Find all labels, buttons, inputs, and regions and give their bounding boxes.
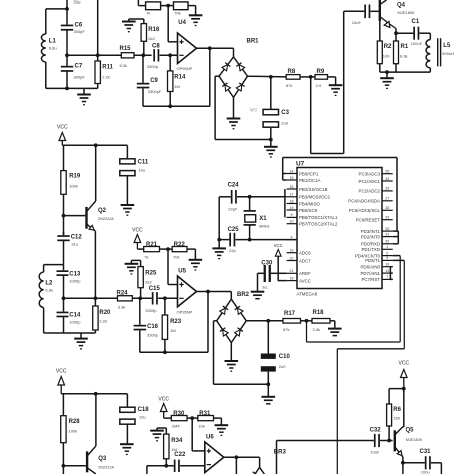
svg-text:22: 22 bbox=[290, 256, 294, 260]
ground R31 bbox=[215, 425, 229, 435]
svg-text:PB0/ICP1: PB0/ICP1 bbox=[299, 171, 319, 176]
wire riser to C32 bbox=[277, 440, 374, 442]
wire node1 to R15 bbox=[67, 54, 121, 56]
svg-text:31u: 31u bbox=[74, 0, 82, 5]
svg-text:PD2/INT0: PD2/INT0 bbox=[361, 234, 381, 239]
svg-text:3.3k: 3.3k bbox=[313, 327, 321, 332]
wire U6 output node bbox=[224, 455, 260, 459]
svg-text:10uF: 10uF bbox=[370, 449, 380, 454]
ground C30 bbox=[251, 292, 265, 299]
wire emitter Q1 (cut off above) bbox=[96, 0, 100, 61]
svg-text:24: 24 bbox=[385, 177, 389, 181]
ground tank1 bbox=[77, 88, 91, 104]
svg-text:31: 31 bbox=[385, 232, 389, 236]
svg-text:100: 100 bbox=[383, 54, 390, 59]
resistor R2 bbox=[377, 21, 392, 72]
capacitor C24 bbox=[219, 182, 286, 211]
ground R34 bbox=[150, 431, 164, 441]
svg-text:C9: C9 bbox=[150, 78, 158, 84]
svg-text:19: 19 bbox=[290, 249, 294, 253]
svg-text:PB2/SS/OC1B: PB2/SS/OC1B bbox=[299, 187, 328, 192]
svg-text:PD6/AIN0: PD6/AIN0 bbox=[360, 265, 380, 270]
svg-text:R16: R16 bbox=[148, 27, 160, 33]
wire crystal left rail bbox=[217, 197, 221, 242]
svg-text:C24: C24 bbox=[228, 182, 240, 188]
wire R25 top jog bbox=[131, 260, 140, 263]
wire U4 feedback rail bbox=[143, 48, 210, 108]
svg-text:PD3/INT1: PD3/INT1 bbox=[361, 229, 381, 234]
power VCC Q5 bbox=[399, 361, 410, 389]
wire U4 output node bbox=[197, 46, 234, 50]
svg-text:VCC: VCC bbox=[158, 397, 169, 403]
IC U7 body bbox=[296, 161, 382, 297]
wire junction to U4 plus input bbox=[168, 6, 177, 42]
svg-text:PD1/TXD: PD1/TXD bbox=[361, 247, 380, 252]
ground tank2 bbox=[74, 333, 88, 349]
ground C10 bbox=[262, 384, 276, 404]
wire to BR3 top bbox=[259, 457, 261, 467]
wire net H2 to U7 bbox=[283, 158, 397, 232]
svg-text:PB3/MOSI/OC2: PB3/MOSI/OC2 bbox=[299, 195, 331, 200]
svg-text:1M: 1M bbox=[174, 84, 180, 89]
bridge rectifier BR3 bbox=[248, 449, 286, 474]
svg-text:ADC7: ADC7 bbox=[299, 258, 311, 263]
resistor R19 bbox=[61, 145, 81, 194]
svg-text:OP95NP: OP95NP bbox=[177, 66, 193, 71]
ground crystal rail bbox=[212, 240, 226, 259]
svg-text:PC7/RST: PC7/RST bbox=[361, 277, 380, 282]
resistor R28 bbox=[61, 394, 81, 443]
svg-text:R31: R31 bbox=[199, 411, 211, 417]
svg-text:C6: C6 bbox=[75, 23, 83, 29]
svg-text:R24: R24 bbox=[117, 291, 129, 297]
svg-text:16: 16 bbox=[290, 185, 294, 189]
svg-text:U4: U4 bbox=[178, 20, 186, 26]
resistor R34 bbox=[164, 428, 183, 466]
resistor R22 bbox=[172, 242, 187, 259]
capacitor C18 bbox=[120, 394, 149, 424]
capacitor C16 bbox=[134, 298, 159, 352]
wire U7 pins 1-2 bracket bbox=[283, 158, 287, 181]
resistor R18 bbox=[312, 310, 330, 332]
capacitor C11 bbox=[120, 145, 149, 175]
svg-text:1M: 1M bbox=[170, 328, 176, 333]
capacitor C1 bbox=[411, 19, 423, 46]
svg-text:2N2222A: 2N2222A bbox=[98, 217, 114, 221]
capacitor C25 bbox=[219, 227, 297, 253]
wire Q2 emitter down bbox=[94, 231, 98, 306]
wire BR1 bottom to ground bbox=[233, 97, 235, 118]
ground R13 bbox=[189, 15, 203, 25]
svg-text:R2: R2 bbox=[384, 44, 392, 50]
wire R24 to node A2 bbox=[132, 296, 152, 300]
svg-text:1: 1 bbox=[386, 245, 388, 249]
svg-text:2.2k: 2.2k bbox=[99, 319, 107, 324]
wire U7 right bracket lower rows bbox=[390, 267, 392, 280]
op-amp U4 bbox=[177, 20, 197, 71]
inductor L5 bbox=[426, 38, 454, 68]
wire R22 to ground bbox=[187, 249, 195, 260]
wire net A to Q4 base bbox=[343, 11, 345, 153]
svg-text:PD5/T1: PD5/T1 bbox=[365, 258, 380, 263]
svg-text:5.0k: 5.0k bbox=[120, 63, 128, 68]
wire Q4 emitter node bbox=[394, 29, 398, 36]
wire R12-R13 junction bbox=[161, 4, 174, 8]
svg-text:R20: R20 bbox=[99, 310, 111, 316]
svg-text:4: 4 bbox=[291, 235, 293, 239]
svg-text:BR1: BR1 bbox=[247, 39, 260, 45]
wire BR2 left vertex down bbox=[214, 321, 217, 384]
wire BR3 right vertex riser bbox=[276, 441, 278, 474]
bridge rectifier BR2 bbox=[217, 292, 250, 342]
wire C10 bottom rail bbox=[214, 382, 271, 386]
wire Q4 emitter to C1 bbox=[396, 32, 413, 34]
IC U7 left pins bbox=[287, 169, 338, 283]
svg-text:500uH: 500uH bbox=[442, 51, 454, 56]
svg-text:31u: 31u bbox=[71, 241, 78, 246]
wire node to U6 minus bbox=[180, 465, 205, 467]
svg-text:R34: R34 bbox=[171, 438, 183, 444]
resistor R21 bbox=[144, 242, 160, 259]
wire Q4 block bottom rail bbox=[380, 68, 431, 74]
svg-text:R23: R23 bbox=[170, 319, 182, 325]
svg-text:8MHz: 8MHz bbox=[259, 224, 269, 229]
svg-text:14: 14 bbox=[290, 169, 294, 173]
capacitor C30 bbox=[258, 260, 279, 291]
svg-text:L1: L1 bbox=[49, 39, 57, 45]
wire L2 top bbox=[44, 264, 64, 266]
svg-text:10: 10 bbox=[290, 220, 294, 224]
svg-text:22p: 22p bbox=[229, 248, 236, 253]
wire U5 feedback rail bbox=[140, 292, 208, 355]
svg-text:15: 15 bbox=[290, 176, 294, 180]
svg-text:2k2: 2k2 bbox=[145, 279, 152, 284]
wire U7 pin row 260 to net C bbox=[393, 259, 405, 261]
svg-text:10: 10 bbox=[385, 263, 389, 267]
resistor R31 bbox=[198, 411, 214, 429]
svg-text:3300p: 3300p bbox=[147, 64, 159, 69]
wire U6 feedback down bbox=[235, 457, 237, 474]
svg-text:C10: C10 bbox=[279, 354, 291, 360]
wire junction to U6 plus input bbox=[192, 418, 205, 451]
wire BR2 bottom to ground bbox=[230, 343, 232, 361]
ground C11 bbox=[121, 176, 135, 216]
wire Q5 emitter node bbox=[401, 457, 405, 474]
svg-text:C8: C8 bbox=[152, 44, 160, 50]
svg-text:C3: C3 bbox=[281, 110, 289, 116]
ground C3 bbox=[264, 140, 278, 158]
svg-text:R30: R30 bbox=[173, 411, 185, 417]
resistor R16 bbox=[141, 19, 160, 55]
svg-text:R21: R21 bbox=[146, 242, 158, 248]
svg-text:2.2k: 2.2k bbox=[102, 75, 110, 80]
svg-text:6.3k: 6.3k bbox=[400, 54, 408, 59]
svg-text:R11: R11 bbox=[102, 65, 113, 71]
svg-text:VCC: VCC bbox=[399, 361, 410, 367]
capacitor C6 bbox=[61, 23, 86, 35]
wire VCC to R21 bbox=[137, 248, 143, 250]
wire to BR1 top bbox=[233, 48, 235, 57]
svg-text:MJE180K: MJE180K bbox=[398, 10, 416, 15]
wire R9 to ground bbox=[328, 77, 336, 85]
wire Q2 collector bbox=[95, 145, 97, 201]
wire junction to U5 plus input bbox=[168, 249, 178, 284]
svg-text:3300p: 3300p bbox=[147, 332, 159, 337]
resistor R23 bbox=[162, 298, 182, 352]
capacitor C13 bbox=[57, 265, 82, 312]
wire R31 to ground bbox=[214, 418, 222, 425]
svg-text:100uF: 100uF bbox=[411, 41, 423, 46]
svg-text:10uF: 10uF bbox=[352, 20, 362, 25]
svg-text:PB5/SCK: PB5/SCK bbox=[299, 208, 318, 213]
wire R17-R18 junction bbox=[301, 319, 313, 323]
crystal X1 bbox=[244, 197, 270, 240]
wire R13 to ground bbox=[188, 6, 196, 16]
svg-text:VCC: VCC bbox=[57, 125, 68, 131]
wire U5 output node bbox=[197, 290, 232, 294]
svg-text:7k: 7k bbox=[144, 254, 148, 259]
svg-text:9: 9 bbox=[386, 256, 388, 260]
svg-text:1000p: 1000p bbox=[69, 320, 81, 325]
wire R34 top jog bbox=[157, 428, 166, 431]
wire R19 to base node bbox=[62, 194, 66, 235]
svg-text:19: 19 bbox=[290, 206, 294, 210]
transistor Q3 bbox=[63, 446, 114, 474]
wire C31 right down bbox=[431, 463, 442, 474]
svg-text:70k: 70k bbox=[173, 254, 179, 259]
svg-text:C25: C25 bbox=[228, 227, 240, 233]
resistor R8 bbox=[286, 69, 300, 88]
capacitor C3 bbox=[263, 77, 290, 140]
ground R16 bbox=[122, 22, 136, 32]
svg-text:10u: 10u bbox=[138, 167, 145, 172]
svg-text:18: 18 bbox=[290, 276, 294, 280]
svg-text:28: 28 bbox=[385, 206, 389, 210]
capacitor C22 bbox=[174, 452, 186, 472]
svg-text:3300p: 3300p bbox=[145, 308, 157, 313]
svg-text:U6: U6 bbox=[206, 435, 214, 441]
svg-text:VCC: VCC bbox=[56, 369, 67, 375]
svg-text:29: 29 bbox=[385, 216, 389, 220]
IC U7 right pins bbox=[348, 170, 392, 283]
wire VCC to R6 and Q5 collector bbox=[389, 387, 406, 391]
resistor R11 bbox=[95, 61, 114, 88]
resistor R12 (top, partly cut) bbox=[146, 2, 161, 15]
svg-text:26: 26 bbox=[385, 170, 389, 174]
svg-text:C18: C18 bbox=[138, 407, 150, 413]
resistor R13 (top, partly cut) bbox=[174, 2, 189, 15]
svg-text:27: 27 bbox=[385, 197, 389, 201]
wire R8-R9 junction bbox=[300, 75, 315, 79]
svg-text:1000p: 1000p bbox=[69, 279, 81, 284]
svg-text:3300pF: 3300pF bbox=[148, 89, 162, 94]
svg-text:VCC: VCC bbox=[132, 228, 143, 234]
svg-text:3uL: 3uL bbox=[262, 285, 268, 289]
svg-text:100k: 100k bbox=[69, 429, 78, 434]
transistor Q5 bbox=[394, 427, 423, 457]
svg-text:C32: C32 bbox=[370, 427, 382, 433]
svg-text:PB4/MISO: PB4/MISO bbox=[299, 201, 320, 206]
wire C7 to bottom rail bbox=[65, 71, 69, 91]
svg-text:25: 25 bbox=[385, 187, 389, 191]
svg-text:3.3k: 3.3k bbox=[118, 305, 126, 310]
bridge rectifier BR1 bbox=[219, 39, 259, 98]
svg-text:2N2222A: 2N2222A bbox=[98, 465, 114, 469]
ground R18 bbox=[328, 329, 342, 336]
ground BR2 bbox=[225, 361, 239, 371]
svg-text:C1: C1 bbox=[412, 19, 420, 25]
svg-text:PB6/TOSC1/XTAL1: PB6/TOSC1/XTAL1 bbox=[299, 215, 338, 220]
wire to BR2 top bbox=[230, 292, 232, 300]
svg-text:MJE180K: MJE180K bbox=[406, 438, 423, 442]
svg-text:180: 180 bbox=[393, 415, 400, 420]
wire R18 to ground bbox=[330, 321, 335, 329]
svg-text:AVCC: AVCC bbox=[299, 278, 311, 283]
svg-text:7k: 7k bbox=[146, 10, 150, 15]
svg-text:17: 17 bbox=[290, 193, 294, 197]
svg-text:C7: C7 bbox=[75, 64, 83, 70]
wire U7 left bracket pins 3-7 bbox=[284, 189, 286, 217]
svg-text:Q5: Q5 bbox=[406, 428, 415, 434]
svg-text:7: 7 bbox=[386, 275, 388, 279]
svg-text:3(7)ʺ: 3(7)ʺ bbox=[250, 107, 259, 112]
svg-text:20: 20 bbox=[385, 227, 389, 231]
svg-text:R9: R9 bbox=[317, 69, 325, 75]
svg-text:C30: C30 bbox=[261, 260, 273, 266]
power VCC AVCC bbox=[274, 243, 283, 281]
svg-text:Q3: Q3 bbox=[98, 456, 107, 462]
wire net B from R17-R18 junction bbox=[307, 256, 401, 342]
wire R21-R22 junction bbox=[160, 247, 173, 251]
capacitor C14 bbox=[57, 312, 82, 333]
svg-text:18: 18 bbox=[290, 199, 294, 203]
wire channel3 signal riser bbox=[147, 464, 174, 474]
capacitor C8 bbox=[147, 44, 161, 69]
resistor R6 bbox=[387, 389, 402, 441]
transistor Q2 bbox=[64, 201, 115, 231]
inductor L1 bbox=[41, 9, 56, 89]
wire Q4 base line bbox=[344, 10, 365, 12]
svg-text:Q4: Q4 bbox=[397, 3, 406, 9]
svg-text:X1: X1 bbox=[259, 216, 267, 222]
annotation near BR1 bbox=[250, 107, 259, 112]
svg-text:C22: C22 bbox=[174, 452, 186, 458]
svg-text:PC6/RESET: PC6/RESET bbox=[356, 218, 381, 223]
capacitor C2 (base coupling) bbox=[352, 5, 371, 26]
svg-text:PC4/ADC4/SDA: PC4/ADC4/SDA bbox=[348, 199, 380, 204]
svg-text:U7: U7 bbox=[296, 161, 305, 168]
svg-text:13: 13 bbox=[385, 269, 389, 273]
capacitor C31 bbox=[420, 449, 432, 474]
capacitor C10 bbox=[261, 321, 291, 384]
svg-text:300pF: 300pF bbox=[74, 74, 86, 79]
ground R9 bbox=[329, 85, 343, 95]
svg-text:87k: 87k bbox=[283, 327, 289, 332]
wire C32 to Q5 base bbox=[380, 439, 393, 443]
wire C3 bottom rail bbox=[215, 138, 273, 142]
wire node B1 to U4 minus bbox=[160, 53, 178, 57]
svg-text:R15: R15 bbox=[120, 46, 132, 52]
wire C1 to L5 bbox=[419, 33, 430, 39]
ground Q4 block bbox=[380, 72, 394, 88]
wire node2 to R24 bbox=[64, 297, 118, 299]
wire Q5 collector bbox=[402, 389, 405, 428]
svg-text:87k: 87k bbox=[286, 83, 292, 88]
wire tank1 bottom rail bbox=[46, 87, 98, 89]
svg-text:10u: 10u bbox=[139, 415, 146, 420]
resistor R20 bbox=[93, 306, 111, 333]
svg-text:PD7/AIN1: PD7/AIN1 bbox=[360, 271, 380, 276]
svg-text:21: 21 bbox=[290, 269, 294, 273]
power VCC oscillator2 bbox=[57, 125, 68, 146]
svg-text:R8: R8 bbox=[288, 69, 296, 75]
wire emitter to C31 bbox=[403, 462, 425, 464]
svg-text:PD0/RXD: PD0/RXD bbox=[361, 242, 380, 247]
svg-text:R1: R1 bbox=[401, 44, 409, 50]
svg-text:R6: R6 bbox=[393, 407, 401, 413]
wire R16 top jog bbox=[129, 19, 144, 22]
svg-text:R18: R18 bbox=[313, 310, 325, 316]
wire R12 left (cut) bbox=[138, 0, 145, 6]
svg-text:100u: 100u bbox=[421, 470, 430, 474]
wire U7 right bracket ADC rows bbox=[393, 231, 399, 244]
svg-text:PC3/ADC3: PC3/ADC3 bbox=[359, 172, 381, 177]
svg-text:22pF: 22pF bbox=[228, 206, 238, 211]
svg-text:Q2: Q2 bbox=[98, 208, 107, 214]
capacitor C15 bbox=[145, 286, 160, 313]
wire BR1 right to R8 bbox=[248, 75, 287, 79]
wire AREF AVCC bracket bbox=[278, 273, 287, 280]
svg-text:9: 9 bbox=[291, 213, 293, 217]
svg-text:L2: L2 bbox=[45, 280, 53, 286]
capacitor C5 value label (cut off) bbox=[74, 0, 82, 5]
capacitor C12 bbox=[57, 232, 82, 265]
op-amp U6 bbox=[205, 435, 224, 473]
svg-text:100k: 100k bbox=[69, 183, 78, 188]
wire net A horizontal H1 bbox=[311, 153, 344, 155]
svg-text:VCC: VCC bbox=[274, 243, 283, 248]
wire R30-R31 junction bbox=[187, 416, 198, 420]
svg-text:C31: C31 bbox=[420, 449, 432, 455]
svg-text:R25: R25 bbox=[145, 270, 157, 276]
svg-text:C13: C13 bbox=[69, 271, 81, 277]
ground C18 bbox=[120, 424, 134, 454]
resistor R1 bbox=[394, 33, 409, 72]
svg-text:PC1/ADC1: PC1/ADC1 bbox=[359, 179, 381, 184]
wire tank1 top rail bbox=[46, 0, 69, 25]
svg-text:C16: C16 bbox=[147, 324, 159, 330]
power VCC amp2 bbox=[132, 228, 143, 250]
wire VCC rail osc2 bbox=[62, 143, 127, 147]
svg-text:10k: 10k bbox=[198, 424, 204, 429]
svg-text:32: 32 bbox=[385, 240, 389, 244]
ground R22 bbox=[189, 260, 203, 270]
transistor Q4 bbox=[379, 0, 416, 29]
svg-text:2u0: 2u0 bbox=[279, 364, 286, 369]
wire U7 pin row 255 to net B bbox=[393, 255, 401, 257]
wire C2 to Q4 bbox=[370, 10, 378, 12]
wire VCC rail osc3 bbox=[61, 392, 127, 396]
wire node B2 to U5 minus bbox=[158, 296, 177, 300]
resistor R14 bbox=[168, 55, 186, 106]
wire C6-C7 node bbox=[65, 30, 69, 67]
ground R25 bbox=[125, 264, 139, 274]
svg-text:U5: U5 bbox=[178, 269, 186, 275]
wire R28 to base node bbox=[62, 443, 66, 474]
wire net A vertical from R8-R9 junction bbox=[310, 77, 312, 154]
svg-text:R19: R19 bbox=[69, 173, 81, 179]
svg-text:R14: R14 bbox=[174, 74, 186, 80]
